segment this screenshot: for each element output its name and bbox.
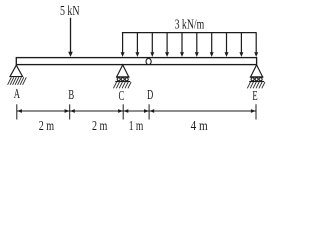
svg-text:A: A: [14, 86, 21, 102]
svg-text:1 m: 1 m: [129, 117, 144, 133]
svg-text:E: E: [252, 88, 257, 104]
svg-text:2 m: 2 m: [92, 117, 108, 133]
svg-text:2 m: 2 m: [39, 117, 55, 133]
svg-text:D: D: [147, 87, 153, 103]
svg-text:B: B: [68, 87, 74, 103]
svg-text:C: C: [119, 88, 125, 104]
svg-text:4 m: 4 m: [191, 118, 208, 133]
svg-text:5 kN: 5 kN: [60, 3, 80, 19]
svg-text:3 kN/m: 3 kN/m: [175, 16, 205, 32]
